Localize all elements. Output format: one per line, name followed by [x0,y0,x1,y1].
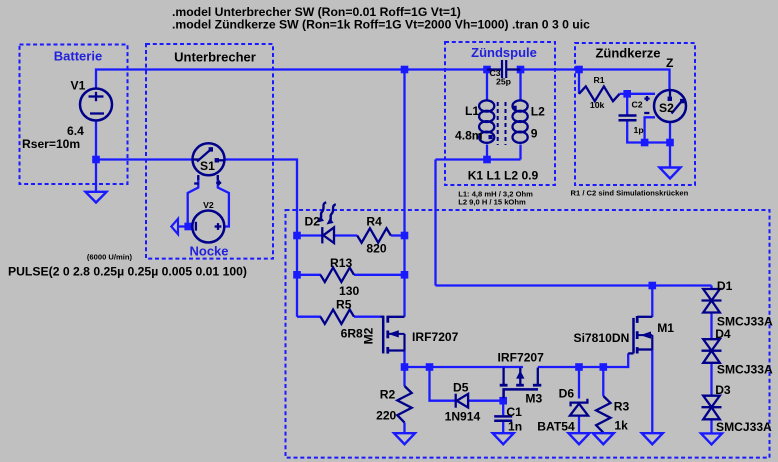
node S2 bottom rail [666,139,674,147]
svg-text:L2 9,0 H / 15 kOhm: L2 9,0 H / 15 kOhm [458,197,526,206]
svg-text:D6: D6 [559,387,575,401]
wire S1 to corner [225,160,298,317]
box Unterbrecher [146,44,273,259]
svg-text:R1: R1 [594,75,605,85]
wire node to D6 [578,367,580,399]
svg-text:D3: D3 [715,383,731,397]
svg-text:L2: L2 [531,105,545,119]
ground R3 [593,433,614,444]
box Zuendspule [445,42,555,185]
box driver circuit [286,210,770,458]
wire transformer bottom rail [436,158,521,160]
ground D6 [569,433,590,444]
svg-text:Z: Z [666,56,674,70]
wire rail to D1 [710,286,712,290]
wire battery to S1 [96,158,193,160]
wire M1 source to ground [651,350,653,434]
ground C1 [493,433,514,444]
svg-text:D4: D4 [715,327,731,341]
diode D5 [456,394,468,408]
wire D6 to ground [578,416,580,434]
node R13 row left [293,271,301,279]
svg-text:C2: C2 [632,100,643,110]
wire node to S2 plus [627,93,655,95]
wire D2 to R4 [335,234,358,236]
phase dot L2 [513,106,517,110]
wire R2 to ground [403,423,405,434]
node M3 gate / D5 / C1 [499,397,507,405]
wire node to D5 [430,367,456,401]
wire top rail C3 to Z corner [521,70,670,91]
mosfet M1 [628,316,652,354]
wire node to R2 [403,367,405,386]
wire node drain rail [436,284,712,286]
svg-text:IRF7207: IRF7207 [412,330,459,344]
resistor R13 [320,268,354,282]
wire secondary feedback down [434,160,436,286]
voltage source V2 [192,211,224,243]
wire gate rail right [538,353,628,367]
resistor R5 [320,310,354,324]
resistor R3 [596,396,610,433]
svg-text:R1 / C2 sind Simulationskrücke: R1 / C2 sind Simulationskrücken [571,188,689,197]
svg-text:D5: D5 [453,381,469,395]
svg-text:Nocke: Nocke [189,244,228,259]
transformer core [498,102,506,145]
wire M1 drain up [651,286,653,318]
svg-text:1n: 1n [508,420,522,434]
svg-text:R13: R13 [330,256,352,270]
wire node to R13 [297,274,321,276]
node C3 left [483,66,491,74]
svg-text:R2: R2 [380,388,396,402]
svg-text:R3: R3 [614,400,630,414]
svg-text:820: 820 [366,242,386,256]
svg-text:SMCJ33A: SMCJ33A [716,420,772,434]
capacitor C1 [494,416,512,420]
wire node Z to R1 [578,70,580,94]
wire R13 to column [354,274,405,276]
node top rail / R1 [575,66,583,74]
svg-text:D1: D1 [717,279,733,293]
svg-text:IRF7207: IRF7207 [498,350,545,364]
tvs diode D4 [702,339,722,363]
svg-text:130: 130 [339,284,359,298]
switch S1 [193,143,225,185]
node M2 source rail [401,363,409,371]
voltage source V1 [80,89,112,121]
svg-text:1k: 1k [614,419,628,433]
wire S2 minus [645,117,655,142]
wire D3 to ground [710,419,712,433]
node battery bottom [92,156,100,164]
wire V1 bottom to ground [95,121,97,192]
svg-text:M1: M1 [657,321,674,335]
node R3 branch [600,363,608,371]
svg-text:R5: R5 [336,298,352,312]
node C3 right [517,66,525,74]
node M1 drain rail [649,282,657,290]
svg-text:Zündkerze: Zündkerze [595,46,660,61]
node D5 branch [426,363,434,371]
svg-text:25p: 25p [496,77,511,87]
ground arrow V2 [171,219,178,234]
wire R1 to node [620,93,628,95]
mosfet M3 [500,368,542,399]
phase dot L1 [489,135,493,139]
wire D5 to node [469,400,504,402]
svg-text:1p: 1p [634,125,644,135]
svg-text:S2: S2 [659,101,674,115]
wire M2 source to rail [403,351,405,368]
diode D6 schottky [570,399,588,416]
tvs diode D1 [702,289,722,313]
wire C1 to ground [502,422,504,433]
svg-text:V1: V1 [71,79,86,93]
svg-text:(6000 U/min): (6000 U/min) [87,253,133,262]
LED D2 [317,202,336,243]
node S2 minus rail [641,139,649,147]
wire L1 top lead [486,70,488,102]
wire R5 to M2 gate [354,316,381,318]
node V2 minus [184,223,192,231]
svg-text:Rser=10m: Rser=10m [22,137,80,151]
node D2 row left [293,232,301,240]
svg-text:6R8: 6R8 [341,327,363,341]
svg-text:V2: V2 [203,200,214,210]
wire node to C1 [502,401,504,416]
wire node to R3 [602,367,604,396]
ground R2 [394,433,415,444]
svg-text:M2: M2 [362,327,376,344]
wire L2 top lead [519,70,521,102]
wire D1 to D4 [710,313,712,340]
capacitor C2 [619,116,637,121]
node R1 C2 S2 [623,90,631,98]
svg-text:M3: M3 [525,391,542,405]
svg-text:1N914: 1N914 [445,410,481,424]
mosfet M2 [381,316,405,354]
box Zuendkerze [575,43,695,185]
svg-text:SMCJ33A: SMCJ33A [717,363,773,377]
inductor L2 [513,100,528,142]
wire R4 to column [391,234,405,236]
node D6 branch [575,363,583,371]
switch S2 [644,90,686,122]
node D2 row right [401,232,409,240]
tvs diode D3 [702,396,722,420]
svg-text:6.4: 6.4 [67,124,84,138]
node L1 bottom [483,156,491,164]
svg-text:PULSE(2 0 2.8 0.25µ 0.25µ 0.00: PULSE(2 0 2.8 0.25µ 0.25µ 0.005 0.01 100… [8,265,247,279]
ground S2 [660,168,681,179]
svg-text:L1: L1 [465,104,479,118]
wire V1 top to rail [96,70,487,89]
svg-text:.model Zündkerze SW (Ron=1k Ro: .model Zündkerze SW (Ron=1k Roff=1G Vt=2… [172,17,590,31]
svg-text:Batterie: Batterie [54,49,102,64]
svg-text:4.8m: 4.8m [455,129,483,143]
svg-text:10k: 10k [590,100,605,110]
svg-text:220: 220 [376,409,396,423]
svg-text:K1 L1 L2 0.9: K1 L1 L2 0.9 [468,169,539,183]
wire M3 gate down [502,399,504,401]
wire S1 control left [188,176,199,227]
svg-text:C1: C1 [506,405,522,419]
svg-text:Zündspule: Zündspule [471,45,537,60]
wire gate rail left [405,366,524,368]
wire L1 bottom lead [486,145,488,160]
wire V2 minus to ground arrow [179,225,193,227]
ground battery [86,192,107,203]
svg-text:Unterbrecher: Unterbrecher [174,50,256,65]
wire S1 control right [218,176,229,227]
svg-text:D2: D2 [305,215,321,229]
svg-text:Si7810DN: Si7810DN [574,331,630,345]
node top rail / column [401,66,409,74]
wire R3 to ground [602,431,604,434]
svg-text:R4: R4 [366,215,382,229]
wire S2 bottom to ground [669,122,671,168]
wire D4 to D3 [710,363,712,396]
wire L2 bottom lead [519,145,521,160]
capacitor C3 [487,60,521,78]
svg-text:S1: S1 [200,159,215,173]
resistor R1 [579,86,620,101]
ground M1 [642,433,663,444]
wire node to C2 [626,94,628,115]
resistor R4 [357,228,391,242]
wire node to R5 [297,316,321,318]
svg-text:9: 9 [531,127,538,141]
wire node to D2 [297,234,322,236]
wire C2 to bottom rail [627,121,670,142]
svg-text:BAT54: BAT54 [537,420,575,434]
ground D3 [701,433,722,444]
resistor R2 [397,386,411,423]
inductor L1 [479,100,494,142]
wire column top rail down to M2 drain [403,70,405,317]
node R13 row right [401,271,409,279]
box Batterie [20,45,128,185]
